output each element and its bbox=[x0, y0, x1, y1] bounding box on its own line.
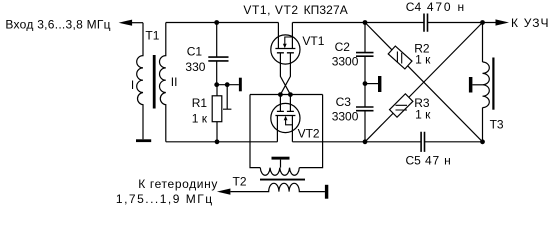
transistor VT1 drain-source leads bbox=[278, 23, 292, 49]
transistor VT2 drain-source leads bbox=[277, 116, 292, 142]
svg-text:3300: 3300 bbox=[332, 55, 359, 69]
svg-text:C3: C3 bbox=[336, 95, 352, 109]
wire top rail T1 to VT1 bbox=[166, 22, 279, 24]
wire diagonal R2 bbox=[365, 23, 483, 142]
node bottom right bbox=[480, 139, 485, 144]
transistor VT2 channel bbox=[275, 115, 295, 117]
wire diagonal R3 bbox=[365, 23, 483, 142]
transistor VT1 gate feet bbox=[277, 52, 294, 54]
wire stub with end bar bbox=[223, 85, 231, 110]
wire top rail C4 to output bbox=[428, 22, 497, 24]
resistor R3 body bbox=[390, 94, 413, 117]
transformer T3 winding bbox=[483, 62, 490, 108]
transistor VT1 gate cross wires bbox=[280, 53, 290, 95]
wire mid node to chassis bbox=[365, 83, 378, 85]
ground chassis T2 lower right bbox=[325, 185, 328, 199]
svg-text:VT2: VT2 bbox=[298, 127, 320, 141]
arrow input bbox=[119, 20, 133, 26]
ground chassis T2 screen bbox=[272, 157, 290, 160]
wire bottom rail left bbox=[166, 141, 278, 143]
svg-text:1 к: 1 к bbox=[415, 53, 431, 67]
node R1 top right bbox=[225, 82, 230, 87]
resistor R1 body bbox=[212, 96, 222, 122]
wire right column bottom bbox=[482, 108, 484, 142]
transistor VT2 gate leads bbox=[280, 95, 290, 112]
svg-text:3300: 3300 bbox=[332, 110, 359, 124]
svg-text:T3: T3 bbox=[490, 118, 504, 132]
transformer T1 core bbox=[153, 55, 156, 109]
node C2 top bbox=[363, 20, 368, 25]
svg-text:II: II bbox=[171, 75, 178, 89]
ground chassis T3 tap bbox=[469, 77, 473, 93]
wire top rail VT1 to C4 bbox=[292, 22, 424, 24]
transistor VT1 channel bbox=[275, 48, 295, 50]
capacitor C1 leads bbox=[216, 23, 218, 85]
wire T3 tap bbox=[472, 84, 482, 86]
svg-text:C4: C4 bbox=[406, 0, 422, 14]
svg-text:1 к: 1 к bbox=[415, 107, 431, 121]
transformer T2 core bbox=[260, 179, 305, 181]
svg-text:C5: C5 bbox=[406, 153, 422, 167]
svg-text:330: 330 bbox=[185, 60, 205, 74]
resistor R2 body bbox=[388, 46, 412, 69]
node R1 bottom bbox=[215, 139, 220, 144]
svg-text:C2: C2 bbox=[335, 40, 351, 54]
svg-text:I: I bbox=[131, 78, 134, 92]
transistor VT1 substrate arrow bbox=[283, 44, 287, 48]
capacitor C4 plates bbox=[424, 14, 428, 32]
wire right column top bbox=[482, 23, 484, 63]
wire gate rail bbox=[250, 94, 323, 96]
capacitor C2 plates bbox=[356, 53, 374, 57]
transformer T2 upper winding bbox=[260, 168, 299, 176]
transistor VT2 substrate hook bbox=[286, 120, 293, 125]
svg-text:470 н: 470 н bbox=[427, 0, 466, 14]
svg-text:T2: T2 bbox=[233, 175, 247, 189]
transistor VT2 gate feet bbox=[277, 110, 294, 112]
capacitor C3 leads bbox=[364, 84, 366, 142]
svg-text:1 к: 1 к bbox=[192, 112, 208, 126]
wire input arrow shaft bbox=[131, 22, 143, 24]
capacitor C2 leads bbox=[364, 23, 366, 84]
wire bottom rail middle bbox=[292, 141, 421, 143]
wire T2 box right bbox=[299, 95, 322, 168]
transistor VT1 substrate hook bbox=[285, 37, 293, 44]
transformer T2 lower winding bbox=[231, 183, 325, 191]
transistor VT2 circle bbox=[271, 103, 300, 132]
svg-text:К УЗЧ: К УЗЧ bbox=[511, 16, 550, 30]
svg-text:1,75...1,9 МГц: 1,75...1,9 МГц bbox=[116, 192, 214, 206]
wire T2 box left bbox=[250, 95, 260, 168]
svg-text:T1: T1 bbox=[145, 29, 159, 43]
transformer T1 winding I bbox=[137, 23, 143, 140]
svg-text:К гетеродину: К гетеродину bbox=[138, 177, 218, 191]
svg-text:КП327А: КП327А bbox=[304, 3, 348, 17]
svg-text:C1: C1 bbox=[187, 45, 203, 59]
node C3 bottom bbox=[363, 139, 368, 144]
resistor R1 leads bbox=[216, 85, 218, 142]
svg-text:VT1, VT2: VT1, VT2 bbox=[243, 3, 298, 17]
node gate left bbox=[278, 92, 283, 97]
svg-text:47 н: 47 н bbox=[425, 153, 452, 167]
node output top bbox=[480, 20, 485, 25]
ground chassis near R1 bbox=[239, 78, 242, 92]
capacitor C1 plates bbox=[208, 57, 228, 61]
transistor VT1 circle bbox=[271, 35, 300, 64]
node gate right bbox=[288, 92, 293, 97]
wire R1 node to chassis bbox=[217, 84, 239, 86]
ground chassis T1 bbox=[136, 139, 151, 142]
capacitor C3 plates bbox=[356, 107, 374, 111]
transformer T1 winding II bbox=[160, 23, 166, 142]
capacitor C5 plates bbox=[421, 132, 424, 152]
svg-text:Вход 3,6...3,8 МГц: Вход 3,6...3,8 МГц bbox=[5, 18, 110, 32]
resistor R3 power marks bbox=[396, 105, 408, 110]
ground chassis mid column bbox=[378, 76, 381, 92]
arrow output bbox=[496, 19, 510, 25]
svg-text:VT1: VT1 bbox=[302, 34, 324, 48]
wire bottom rail right bbox=[425, 141, 483, 143]
transistor VT2 substrate arrow bbox=[284, 116, 288, 120]
node R1 top left bbox=[214, 82, 219, 87]
resistor R2 power marks bbox=[397, 52, 401, 64]
node mid column bbox=[363, 81, 368, 86]
arrow heterodyne bbox=[217, 189, 231, 195]
node C1 top bbox=[214, 20, 219, 25]
transformer T3 core bbox=[492, 58, 494, 110]
transformer T2 screen stem bbox=[280, 160, 282, 168]
svg-text:R1: R1 bbox=[192, 96, 208, 110]
